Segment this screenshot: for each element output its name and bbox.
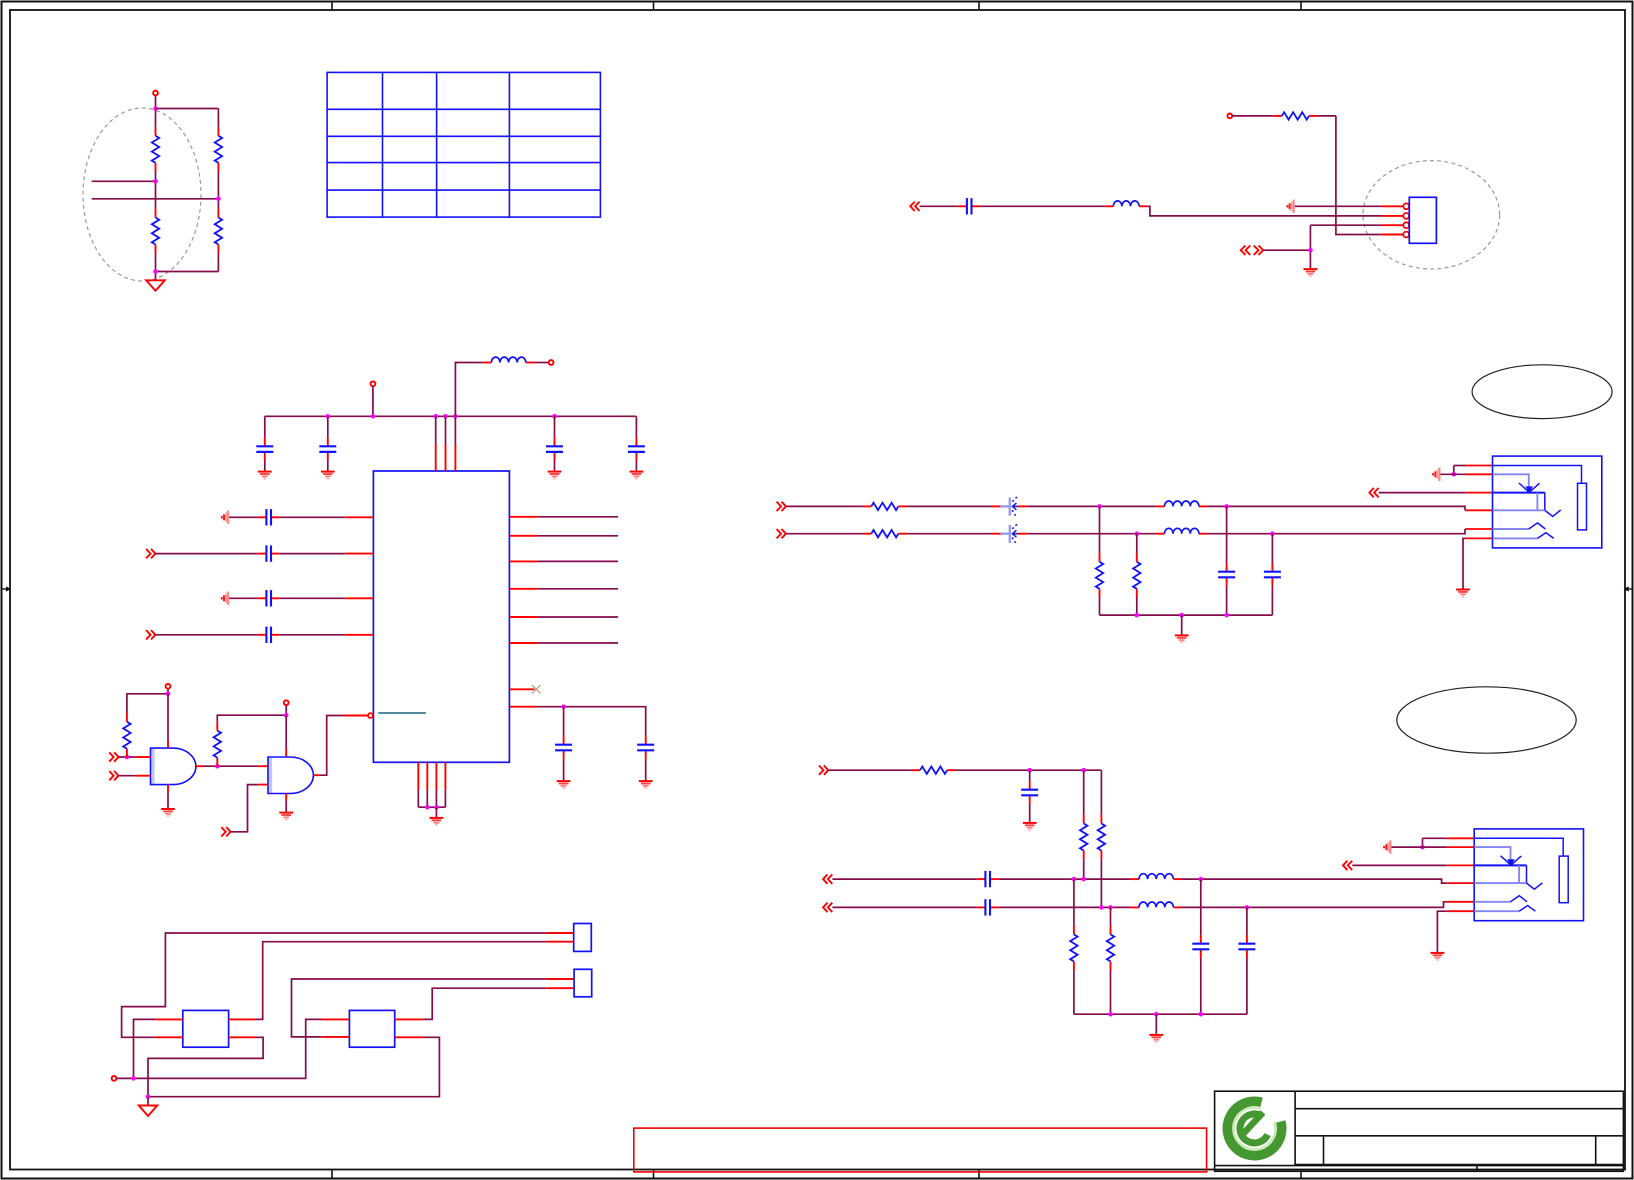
wire C15 to L5 — [999, 878, 1131, 880]
zone tick top 4 — [1300, 2, 1302, 10]
U1 no-connect pin — [509, 688, 534, 690]
shunt resistor R15 — [1070, 879, 1077, 1014]
wire P9 to R9 — [786, 533, 863, 535]
ground G4 — [258, 472, 272, 479]
input row 2: port P3 — [146, 549, 155, 558]
port P13 — [823, 903, 832, 912]
IC U1 body — [373, 471, 509, 762]
shunt resistor R10 — [1096, 506, 1103, 615]
inductor L1 — [1105, 201, 1148, 206]
wire J1 pin2 — [1440, 473, 1465, 475]
title row line 1 — [1295, 1108, 1623, 1110]
resistor R6 pull-up — [123, 713, 130, 757]
wire TP2 to R5 — [1232, 115, 1273, 117]
wire CON2 pin2 to SW2 — [423, 988, 546, 1019]
decoupling capacitor C5 leads — [635, 416, 637, 437]
U1 pin row3 stub — [345, 597, 374, 599]
wire J2 pin6 to ground — [1437, 911, 1446, 952]
switch SW1 body — [183, 1010, 229, 1047]
U2A top pin stub — [167, 741, 169, 748]
wire rail to L2 — [455, 363, 482, 417]
wire R1 to R3 — [155, 172, 157, 209]
logo cell divider — [1294, 1091, 1296, 1165]
terminal TP5 — [166, 684, 171, 689]
U1 output pin 4 — [509, 588, 618, 590]
resistor R2 — [215, 127, 222, 171]
junction bottom — [153, 269, 158, 274]
junction row A shunt — [1072, 877, 1077, 882]
U1 top pin c — [454, 416, 456, 471]
U2B in1 stub — [258, 765, 268, 767]
U1 bottom pin 2 — [426, 762, 428, 807]
zone tick bottom 3 — [978, 1170, 980, 1179]
U1 bottom pin 4 — [444, 762, 446, 807]
U1 bottom pin 3 — [435, 762, 437, 807]
wire R5 to corner — [1318, 115, 1336, 117]
U2B in2 stub — [258, 784, 268, 786]
wire P8 to R8 — [786, 505, 863, 507]
junction bus C17 — [1199, 1012, 1204, 1017]
wire to ground — [147, 1097, 149, 1105]
wire C9 to U1 — [280, 634, 345, 636]
junction rail C3 — [326, 414, 331, 419]
highlight ellipse E3 — [1472, 365, 1612, 419]
wire vertical to pin4 row — [1336, 116, 1382, 235]
port P1 left chevrons — [910, 202, 919, 211]
junction bus R11 — [1135, 613, 1140, 618]
U1 enable pin stub — [344, 715, 368, 717]
wire R7 top — [217, 715, 286, 722]
zone tick bottom 2 — [653, 1170, 655, 1179]
U1 output pin 3 — [509, 560, 618, 562]
decoupling capacitor C3 leads — [327, 416, 329, 437]
inductor L3 — [1156, 501, 1208, 506]
port P6 — [109, 771, 118, 780]
note box — [634, 1128, 1207, 1172]
wire C7 to U1 — [280, 553, 345, 555]
zone tick bottom 4 — [1300, 1170, 1302, 1179]
terminal TP3 — [371, 381, 376, 386]
CON1 pin stubs — [546, 933, 573, 942]
wire P7 to U2B in2 — [231, 785, 259, 832]
wire J2 pin1 — [1423, 837, 1447, 839]
ground G7 — [630, 472, 644, 479]
ground G6 — [548, 472, 562, 479]
highlight ellipse E4 — [1397, 687, 1576, 753]
wire G9 to C8 — [229, 597, 258, 599]
wire C8 to U1 — [280, 597, 345, 599]
jack J1 — [1465, 456, 1602, 548]
table grid — [327, 72, 600, 217]
zone tick top 1 — [331, 2, 333, 10]
logo slash — [1243, 1113, 1263, 1135]
capacitor C10 — [555, 736, 572, 759]
junction row A cap — [1199, 877, 1204, 882]
ground bus wire — [418, 806, 445, 808]
capacitor C1 — [958, 198, 980, 214]
ground G12 — [430, 818, 444, 825]
U2B top pin stub — [285, 749, 287, 757]
wire terminal row — [116, 1019, 321, 1078]
wire bus to ground — [435, 807, 437, 817]
resistor R1 — [152, 127, 159, 171]
wire bottom branch — [156, 271, 219, 273]
U2A in2 stub — [136, 775, 151, 777]
wire L5 to jack J2 pin4 — [1182, 879, 1447, 883]
wire TP1 to node A — [155, 95, 157, 127]
ground G21 — [1431, 953, 1445, 960]
center marker arrow left — [2, 586, 11, 591]
wire L3 to jack J1 pin4 — [1208, 506, 1466, 510]
SW1 pin stubs — [155, 1019, 255, 1037]
polarized capacitor CP2 — [991, 525, 1027, 544]
wire P2 to junction — [1263, 249, 1310, 251]
inductor L2 — [483, 357, 535, 362]
junction terminal row — [131, 1076, 136, 1081]
wire tap upper — [92, 180, 156, 182]
connector CON4 pin circles — [1403, 203, 1409, 237]
wire U2A out to U2B in1 — [204, 765, 258, 767]
logo cell bottom — [1215, 1165, 1624, 1167]
U2A bottom pin stub — [167, 785, 169, 793]
dashed highlight ellipse E1 — [83, 108, 201, 281]
wire J2 pin1 drop — [1422, 838, 1424, 847]
logo inner ring — [1240, 1114, 1268, 1143]
wire C1 to L1 — [980, 205, 1104, 207]
junction tap upper — [153, 179, 158, 184]
wire CP2 to L4 — [1027, 533, 1156, 535]
wire P5 to U2A in1 — [119, 756, 136, 758]
U1 top pin a — [435, 416, 437, 471]
U1 output pin 2 — [509, 535, 618, 537]
wire CP1 to L3 — [1027, 505, 1156, 507]
junction bus gnd — [1179, 613, 1184, 618]
sheet cell divider — [1476, 1165, 1478, 1172]
wire P3 to C7 — [155, 553, 257, 555]
inductor L6 — [1130, 902, 1182, 907]
wire G8 to C6 — [229, 516, 258, 518]
junction rail pin a — [433, 414, 438, 419]
port P7 — [221, 827, 230, 836]
capacitor C8 — [258, 590, 280, 606]
capacitor C15 — [977, 871, 999, 887]
resistor R5 — [1273, 112, 1317, 119]
input row 3: signal ground G9 — [222, 592, 228, 605]
signal ground G20 (rotated) — [1384, 840, 1390, 853]
wire ground net SW1-SW2 — [148, 1037, 439, 1096]
zone tick top 2 — [653, 2, 655, 10]
connector CON4 pin stubs — [1381, 206, 1403, 234]
junction row B shunt — [1108, 905, 1113, 910]
ground GND2 — [139, 1106, 158, 1116]
shunt capacitor C12 — [1218, 506, 1235, 615]
wire to C10 — [563, 707, 565, 736]
center marker arrow right — [1624, 586, 1633, 591]
wire P13 to C16 — [832, 906, 976, 908]
ground bus wire — [1100, 614, 1273, 616]
input row 1: signal ground G8 — [222, 511, 228, 524]
junction row B shunt — [1135, 531, 1140, 536]
jack J2 — [1447, 829, 1584, 921]
resistor R4 — [215, 209, 222, 253]
connector CON2 body — [574, 969, 592, 997]
junction J2 pin2 — [1420, 845, 1425, 850]
U2B bottom pin stub — [285, 794, 287, 801]
zone tick bottom 1 — [331, 1170, 333, 1179]
power rail wire — [265, 415, 637, 417]
junction rail pin c — [453, 414, 458, 419]
junction ground net — [146, 1094, 151, 1099]
port P14 — [1343, 861, 1352, 870]
shunt capacitor C18 — [1238, 907, 1255, 1014]
junction R7 bottom — [215, 764, 220, 769]
port P5 — [109, 752, 118, 761]
terminal TP7 — [112, 1076, 117, 1081]
junction J1 pin2 — [1452, 472, 1457, 477]
wire CON2 pin1 to SW2 — [292, 979, 547, 1037]
dashed highlight ellipse E2 — [1363, 161, 1500, 269]
wire R9 to CP2 — [907, 533, 991, 535]
junction row A R13 — [1081, 877, 1086, 882]
port P9 — [777, 529, 786, 538]
U1 top pin b — [445, 416, 447, 471]
wire R4 down — [217, 253, 219, 271]
wire L1 jog to pin2 row — [1148, 206, 1382, 216]
shunt capacitor C17 — [1192, 879, 1209, 1014]
capacitor C4 — [546, 438, 563, 461]
rev cell divider — [1595, 1136, 1597, 1165]
wire TP5 stub — [167, 689, 169, 694]
junction row B R14 — [1099, 905, 1104, 910]
wire J1 pin1 — [1454, 465, 1465, 467]
and gate U2A — [151, 748, 196, 785]
input row 4: port P4 — [146, 630, 155, 639]
wire to U2B top pin — [285, 715, 287, 749]
junction TP5 — [166, 692, 171, 697]
U2A output stub — [196, 765, 204, 767]
wire bus to ground — [1181, 615, 1183, 634]
wire J1 pin6 to ground — [1463, 538, 1465, 588]
resistor R9 — [863, 530, 907, 537]
junction row A shunt — [1097, 504, 1102, 509]
terminal TP1 — [153, 91, 158, 96]
and gate U2B — [268, 757, 313, 794]
CON2 pin stubs — [546, 979, 574, 988]
junction TP6 — [284, 713, 289, 718]
signal ground G16 (rotated) — [1433, 468, 1439, 481]
wire TP3 to rail — [372, 386, 374, 416]
terminal TP6 — [284, 700, 289, 705]
decoupling capacitor C2 leads — [264, 416, 266, 437]
ground G17 — [1456, 590, 1470, 597]
junction R6 bottom — [125, 755, 130, 760]
inductor L4 — [1156, 528, 1208, 533]
wire P10 to J1 pin3 — [1379, 492, 1465, 494]
port P2 bidirectional — [1241, 246, 1264, 255]
ground G10 — [557, 781, 571, 788]
ground G15 — [1175, 635, 1189, 642]
shunt capacitor C13 — [1264, 534, 1281, 615]
wire tap lower — [92, 198, 219, 200]
wire J2 pin2 — [1391, 846, 1446, 848]
wire P1 to C1 — [920, 205, 959, 207]
terminal TP2 — [1227, 114, 1232, 119]
polarized capacitor CP1 — [991, 497, 1027, 516]
U1 filter pin stub — [509, 706, 536, 708]
junction filter — [561, 704, 566, 709]
ground G13 — [161, 809, 175, 816]
junction rail C4 — [552, 414, 557, 419]
no-connect X mark — [532, 685, 541, 693]
U2B output stub — [313, 774, 319, 776]
wire U2B bottom to ground — [285, 801, 287, 812]
junction top R13 — [1081, 768, 1086, 773]
junction bus gnd — [1154, 1012, 1159, 1017]
capacitor C3 — [319, 438, 336, 461]
capacitor C2 — [256, 438, 273, 461]
size cell divider — [1323, 1136, 1325, 1165]
port P8 — [777, 502, 786, 511]
SW2 pin stubs — [322, 1019, 423, 1037]
signal ground G2 (rotated) — [1287, 200, 1293, 213]
zone tick top 3 — [978, 2, 980, 10]
wire right branch down — [217, 109, 219, 128]
wire R3 to ground — [155, 253, 157, 279]
decoupling capacitor C4 leads — [554, 416, 556, 437]
title row line 3 — [1295, 1164, 1623, 1166]
U1 internal overline mark — [378, 712, 426, 714]
resistor R3 — [152, 209, 159, 253]
U1 output pin 1 — [509, 516, 618, 518]
wire J1 pin1 drop — [1453, 466, 1455, 475]
shunt resistor R11 — [1133, 534, 1140, 615]
wire P4 to C9 — [155, 634, 257, 636]
resistor R7 pull-up — [214, 722, 221, 766]
wire CON1 pin2 to SW1 — [255, 942, 546, 1020]
wire G2 to pin1 — [1295, 205, 1382, 207]
logo outer ring — [1228, 1101, 1282, 1155]
ground G11 — [639, 781, 653, 788]
capacitor C9 — [258, 627, 280, 643]
capacitor C11 — [637, 736, 654, 759]
ground G18 — [1023, 823, 1037, 830]
series resistor R14 — [1098, 770, 1105, 907]
port P10 — [1369, 488, 1378, 497]
capacitor C16 — [977, 899, 999, 915]
U1 output pin 6 — [509, 642, 618, 644]
title row line 2 — [1295, 1135, 1623, 1137]
capacitor C7 — [258, 545, 280, 561]
U1 pin row1 stub — [345, 516, 374, 518]
wire P11 to R12 — [828, 769, 911, 771]
wire top branch — [156, 108, 219, 110]
wire filter pin — [537, 707, 646, 736]
wire U2A bottom to ground — [167, 793, 169, 808]
shunt resistor R16 — [1107, 907, 1114, 1014]
junction row B cap — [1270, 531, 1275, 536]
ground G14 — [279, 813, 293, 820]
junction rail TP3 — [371, 414, 376, 419]
junction bus C12 — [1224, 613, 1229, 618]
junction bus a — [425, 805, 430, 810]
port P12 — [823, 874, 832, 883]
U1 pin row2 stub — [345, 553, 374, 555]
U1 pin row4 stub — [345, 634, 374, 636]
title block outline — [1215, 1091, 1624, 1171]
wire to U2A top pin — [167, 694, 169, 741]
wire SW1 pin1 to terminal row — [134, 1019, 156, 1078]
wire C6 to U1 — [280, 516, 345, 518]
wire U2B out to U1 enable — [319, 716, 344, 776]
U2A in1 stub — [136, 756, 151, 758]
resistor R12 — [911, 767, 955, 774]
wire L4 to jack J1 pin5 — [1208, 529, 1466, 534]
terminal TP4 — [549, 360, 554, 365]
switch SW2 body — [349, 1010, 394, 1047]
U1 output pin 5 — [509, 616, 618, 618]
ground GND1 — [146, 280, 165, 290]
junction P2 — [1308, 248, 1313, 253]
wire P14 to J2 pin3 — [1352, 864, 1446, 866]
junction rail pin b — [443, 414, 448, 419]
ground bus wire — [1074, 1013, 1247, 1015]
connector CON1 body — [574, 924, 592, 952]
junction top C14 — [1027, 768, 1032, 773]
wire P12 to C15 — [832, 878, 976, 880]
wire bus to ground — [1155, 1014, 1157, 1034]
wire R6 top — [127, 694, 168, 713]
capacitor C6 — [258, 509, 280, 525]
wire R8 to CP1 — [907, 505, 991, 507]
connector CON4 body — [1409, 197, 1436, 243]
U1 enable bubble — [368, 713, 373, 718]
ground G3 — [1304, 269, 1318, 276]
capacitor C5 — [628, 438, 645, 461]
logo separator arc — [1234, 1107, 1276, 1149]
wire P6 to U2A in2 — [119, 775, 136, 777]
wire C16 to L6 — [999, 906, 1131, 908]
wire R12 to corner — [956, 769, 1102, 771]
resistor R8 — [863, 503, 907, 510]
junction row A cap — [1224, 504, 1229, 509]
junction bus R16 — [1108, 1012, 1113, 1017]
node A junction — [153, 106, 158, 111]
inductor L5 — [1130, 874, 1182, 879]
wire CON1 pin1 to SW1 — [122, 933, 547, 1037]
wire TP6 stub — [285, 705, 287, 715]
wire L6 to jack J2 pin5 — [1182, 902, 1447, 908]
junction row B cap — [1245, 905, 1250, 910]
ground G19 — [1149, 1035, 1163, 1042]
wire pin3 column — [1309, 225, 1311, 268]
ground G5 — [321, 472, 335, 479]
port P11 — [819, 766, 828, 775]
junction tap lower — [216, 197, 221, 202]
series resistor R13 — [1080, 770, 1087, 879]
wire pin3 row — [1310, 224, 1381, 226]
U1 bottom pin 1 — [417, 762, 419, 807]
wire L2 to TP4 — [534, 362, 548, 364]
wire R2 to R4 — [217, 172, 219, 209]
junction bus b — [434, 805, 439, 810]
capacitor C14 to ground — [1021, 770, 1038, 822]
